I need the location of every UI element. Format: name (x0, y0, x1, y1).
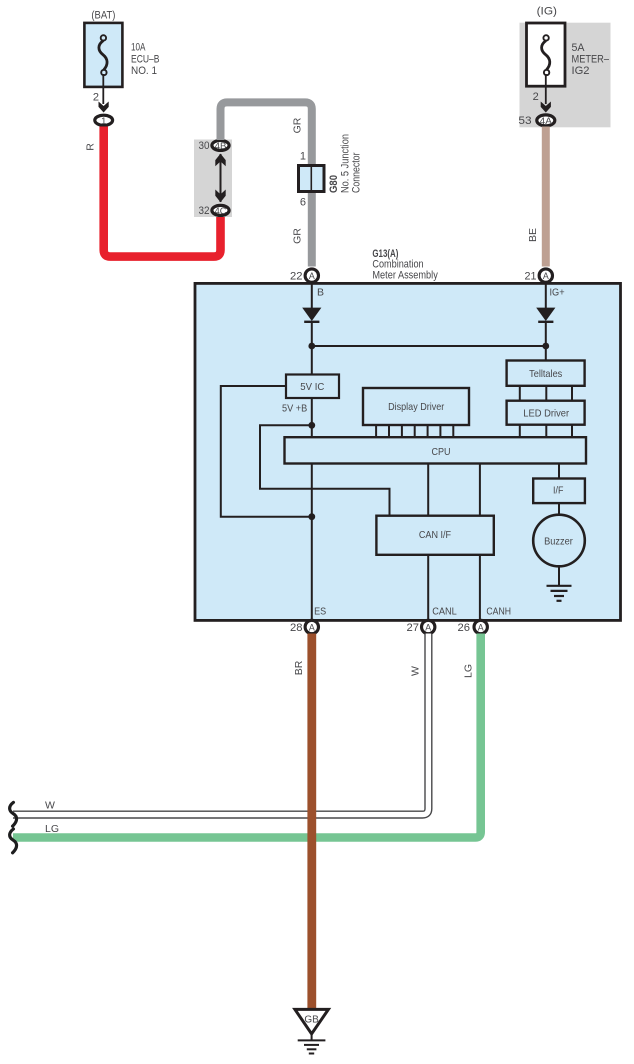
svg-text:GR: GR (292, 228, 304, 244)
svg-text:Connector: Connector (351, 152, 363, 193)
block CAN I/F (376, 516, 493, 555)
wire IG+ vertical (545, 283, 547, 308)
svg-text:53: 53 (518, 115, 531, 127)
wire cross rail (312, 345, 546, 347)
svg-text:CANL: CANL (432, 605, 457, 617)
svg-text:ECU–B: ECU–B (131, 53, 160, 65)
svg-text:IG+: IG+ (550, 286, 565, 298)
node junction dot right (542, 343, 549, 350)
fuse F2 5A METER-IG2 (527, 6, 610, 87)
wires LED Driver to CPU (520, 425, 572, 438)
pin 28 terminal A (290, 620, 318, 634)
continuation mark W (10, 802, 17, 826)
svg-text:LG: LG (463, 664, 475, 678)
block 5V IC (286, 375, 339, 399)
svg-text:1: 1 (101, 115, 106, 126)
svg-text:4C: 4C (215, 206, 227, 216)
svg-text:GB: GB (304, 1015, 319, 1026)
wire CANL inside (427, 555, 429, 619)
pin 21 terminal A (525, 269, 553, 283)
svg-text:BR: BR (293, 660, 305, 675)
svg-text:I/F: I/F (553, 485, 563, 497)
node junction dot ES (308, 513, 315, 520)
arrow into connector 1 (99, 102, 109, 113)
svg-text:CAN I/F: CAN I/F (419, 529, 451, 541)
wire CANH inside (479, 555, 481, 619)
wire W white outlined (13, 634, 428, 815)
arrow into connector 4A (541, 102, 551, 113)
ground buzzer (547, 566, 572, 601)
diode D1 (302, 308, 321, 322)
wire BR brown (307, 634, 316, 1009)
wire I/F to buzzer (558, 503, 560, 514)
svg-text:CPU: CPU (432, 446, 451, 458)
svg-text:W: W (45, 800, 55, 812)
connector terminal 4C pin 32 (199, 205, 230, 217)
svg-text:27: 27 (407, 622, 420, 634)
svg-text:10A: 10A (131, 42, 146, 54)
svg-text:LG: LG (45, 823, 59, 835)
svg-text:Display Driver: Display Driver (388, 401, 445, 413)
svg-text:GR: GR (292, 117, 304, 133)
svg-text:6: 6 (300, 197, 306, 209)
svg-text:(BAT): (BAT) (91, 10, 115, 22)
svg-text:B: B (317, 286, 324, 298)
svg-text:Meter Assembly: Meter Assembly (372, 269, 438, 281)
svg-text:Telltales: Telltales (529, 368, 562, 380)
wires Telltales to LED Driver (520, 386, 572, 401)
wire GR gray (221, 102, 312, 266)
diode D2 (536, 308, 555, 322)
wire B vertical (311, 283, 313, 308)
arrow up into 4B (215, 154, 225, 167)
svg-text:A: A (309, 271, 315, 281)
connector terminal 4B pin 30 (199, 140, 230, 152)
block CPU (285, 437, 587, 463)
svg-text:R: R (84, 143, 96, 151)
svg-text:2: 2 (533, 91, 539, 103)
junction block J-C shaded (194, 140, 232, 218)
block Telltales (507, 361, 585, 386)
wire from D1 to 5V IC (311, 321, 313, 375)
wire fuse pin 2 lead (93, 74, 103, 104)
svg-text:4B: 4B (215, 141, 227, 151)
svg-text:NO. 1: NO. 1 (131, 65, 157, 77)
fuse F1 10A ECU-B NO.1 (BAT) (84, 10, 159, 87)
wire 5V IC left loop (221, 386, 312, 517)
wire 5V+B rail to CAN I/F (260, 425, 390, 515)
connector terminal 4A pin 53 (518, 115, 554, 127)
svg-text:BE: BE (527, 228, 539, 242)
junction connector G80 (299, 134, 363, 209)
svg-text:21: 21 (525, 271, 537, 283)
combination meter assembly box G13(A) (195, 283, 621, 620)
wire ES main vertical (311, 398, 313, 619)
pin 22 terminal A (290, 269, 318, 283)
svg-text:A: A (425, 623, 431, 633)
wire fuse IG pin 2 lead (533, 74, 546, 104)
ground GB (295, 1009, 329, 1053)
node junction dot 5V+B (308, 422, 315, 429)
svg-text:5A: 5A (572, 42, 586, 54)
svg-text:28: 28 (290, 622, 303, 634)
svg-text:A: A (309, 623, 315, 633)
svg-text:1: 1 (300, 151, 306, 163)
label G13(A) Combination Meter Assembly (372, 248, 438, 282)
svg-text:IG2: IG2 (572, 65, 590, 77)
svg-text:32: 32 (199, 205, 210, 217)
block I/F (533, 479, 585, 504)
buzzer (533, 515, 585, 567)
svg-text:LED Driver: LED Driver (523, 408, 569, 420)
wire CPU to I/F (558, 463, 560, 479)
wire between 4B and 4C (220, 154, 222, 202)
arrow down into 4C (215, 190, 225, 203)
block LED Driver (507, 401, 585, 425)
svg-text:22: 22 (290, 271, 303, 283)
wire BE beige (542, 127, 550, 267)
svg-text:5V IC: 5V IC (300, 381, 324, 393)
svg-text:4A: 4A (540, 116, 553, 126)
svg-text:G80: G80 (328, 175, 340, 193)
pin 27 terminal A (407, 620, 435, 634)
svg-text:26: 26 (458, 622, 471, 634)
fuse F2 5A METER-IG2 (IG) shaded block (520, 23, 611, 128)
svg-text:METER–: METER– (572, 54, 610, 66)
connector terminal 1 (95, 115, 113, 126)
wires Display Driver to CPU comb (376, 425, 453, 438)
wire from D2 to Telltales (545, 321, 547, 361)
svg-text:ES: ES (314, 605, 326, 617)
block Display Driver (363, 388, 469, 425)
svg-text:(IG): (IG) (537, 6, 557, 18)
svg-text:A: A (478, 623, 484, 633)
wire R red (104, 127, 221, 257)
svg-text:30: 30 (199, 140, 210, 152)
wires CPU to CAN I/F (427, 463, 429, 516)
svg-text:Buzzer: Buzzer (544, 536, 573, 548)
node junction dot left (308, 343, 315, 350)
svg-text:2: 2 (93, 92, 99, 104)
svg-text:W: W (410, 666, 422, 676)
wire LG green (13, 634, 481, 838)
svg-text:CANH: CANH (486, 605, 511, 617)
continuation mark LG (10, 829, 17, 853)
pin 26 terminal A (458, 620, 488, 634)
svg-text:5V +B: 5V +B (282, 402, 307, 414)
svg-text:A: A (543, 271, 549, 281)
